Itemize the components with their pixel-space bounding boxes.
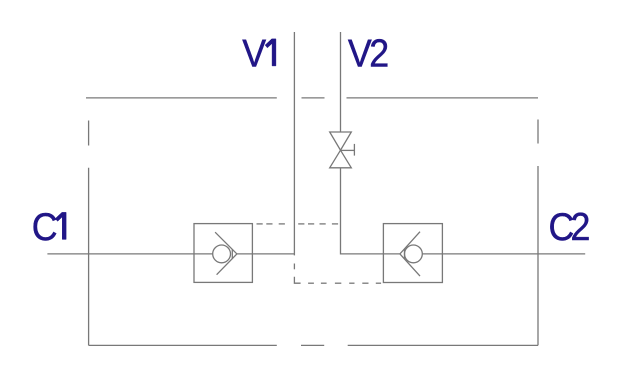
check valve CV2 seat chord — [404, 249, 406, 259]
pilot line bottom (dashed) from V1 junction to CV2 box — [294, 264, 381, 284]
enclosure boundary top-right segment — [347, 97, 539, 99]
check valve CV2 seat upper line — [400, 232, 420, 254]
check valve CV1 seat chord — [231, 249, 233, 258]
svg-text:V: V — [242, 31, 266, 74]
needle valve stem — [341, 149, 355, 151]
needle valve V2 upper triangle — [330, 132, 352, 150]
check valve CV1 ball — [213, 245, 231, 263]
check valve CV1 seat lower line — [217, 254, 237, 275]
check valve CV2 ball — [405, 245, 423, 263]
port label C2 — [549, 205, 591, 248]
enclosure boundary bottom middle dash — [301, 344, 324, 346]
needle valve V2 lower triangle — [330, 150, 352, 168]
port label V1 — [242, 31, 276, 74]
port label C1 — [32, 205, 66, 248]
enclosure boundary top middle dash — [302, 97, 325, 99]
check valve CV2 box — [383, 224, 442, 283]
enclosure boundary top-left segment — [86, 97, 277, 99]
check valve CV2 seat lower line — [400, 254, 420, 276]
enclosure boundary left solid segment — [88, 168, 90, 346]
svg-text:2: 2 — [571, 205, 591, 248]
pilot line top (dashed) from CV1 box to V2 line — [257, 223, 339, 225]
check valve CV1 seat upper line — [215, 232, 237, 254]
enclosure boundary bottom-left segment — [89, 344, 277, 346]
wire right check valve ball to C2 port stub — [422, 253, 585, 255]
enclosure boundary bottom-right segment — [348, 344, 538, 346]
svg-text:2: 2 — [369, 31, 389, 74]
svg-text:C: C — [32, 205, 58, 248]
port label V2 — [348, 31, 389, 74]
wire left check valve seat to V1 junction — [237, 253, 295, 255]
needle valve handle bar — [353, 144, 355, 156]
wire V2 vertical upper segment — [340, 32, 342, 132]
wire C1 port stub to left check valve ball — [47, 253, 212, 255]
wire V2 vertical lower segment with turn to right check valve — [341, 168, 400, 254]
enclosure boundary right solid segment — [537, 166, 539, 345]
check valve CV1 box — [194, 224, 252, 283]
enclosure boundary right upper dash — [537, 120, 539, 144]
enclosure boundary left upper dash — [88, 121, 90, 146]
wire V1 vertical line — [293, 32, 295, 255]
